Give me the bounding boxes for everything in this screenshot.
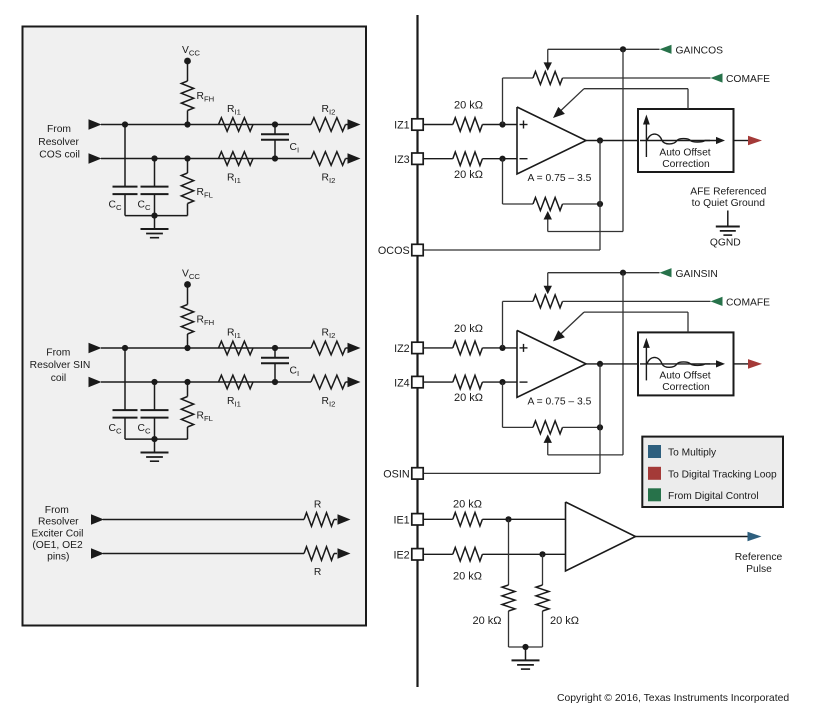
svg-text:20 kΩ: 20 kΩ xyxy=(454,392,483,404)
wire IZ pin to 20k (SIN +) xyxy=(423,347,453,349)
output arrow bottom (SIN) xyxy=(348,377,361,388)
wire 20k to op-amp - (SIN) xyxy=(482,381,517,383)
wire IZ pin to 20k (COS -) xyxy=(423,158,453,160)
node offset pot right (SIN) xyxy=(597,424,603,430)
svg-text:20 kΩ: 20 kΩ xyxy=(453,570,482,582)
wire IZ pin to 20k (SIN -) xyxy=(423,381,453,383)
resistor 20k (IE2) xyxy=(453,548,483,583)
svg-text:Copyright © 2016, Texas Instru: Copyright © 2016, Texas Instruments Inco… xyxy=(557,693,789,704)
wire + input to gain pot (COS) xyxy=(502,78,504,125)
wire bottom rail (COS) xyxy=(101,158,311,160)
svg-text:pins): pins) xyxy=(47,552,69,563)
svg-text:To Multiply: To Multiply xyxy=(668,448,717,459)
capacitor Cc1 (SIN) xyxy=(109,348,138,439)
pin OSIN xyxy=(383,468,423,481)
potentiometer offset (COS bottom) xyxy=(503,198,601,211)
resistor RI1 top (SIN) xyxy=(219,328,254,355)
legend swatch To Digital Tracking Loop xyxy=(648,467,661,480)
wire 20k to comparator + xyxy=(482,518,565,520)
resistor 20k (COS -) xyxy=(453,152,483,181)
ground (comparator divider) xyxy=(512,647,540,669)
svg-text:R: R xyxy=(314,500,321,511)
bus line (device boundary) xyxy=(416,15,418,687)
capacitor Cc2 (SIN) xyxy=(138,382,169,439)
wire + input to gain pot (SIN) xyxy=(502,301,504,348)
Vcc supply terminal (SIN channel) xyxy=(182,269,200,288)
pin IZ3 xyxy=(394,153,423,166)
svg-text:From: From xyxy=(47,124,71,135)
arrow to digital tracking loop (SIN) xyxy=(748,359,762,369)
op-amp U-COS xyxy=(517,107,592,184)
resistor RFH (SIN) xyxy=(181,305,214,335)
ground (COS) xyxy=(141,216,169,238)
wire top rail (COS) xyxy=(101,124,311,126)
node + input (SIN) xyxy=(499,345,505,351)
node bottom-Cc2 junction (SIN) xyxy=(151,379,157,385)
wire block output (SIN) xyxy=(734,363,749,365)
svg-text:20 kΩ: 20 kΩ xyxy=(454,169,483,181)
auto offset correction block (COS) xyxy=(638,109,734,172)
capacitor Ci (SIN) xyxy=(261,348,299,382)
resistor 20k pulldown left xyxy=(472,585,515,627)
output arrow top (COS) xyxy=(348,119,361,130)
svg-text:Correction: Correction xyxy=(662,159,710,170)
svg-text:Exciter Coil: Exciter Coil xyxy=(31,528,83,539)
wire RFH to top rail (SIN) xyxy=(187,334,189,348)
node top-RFH junction (COS) xyxy=(184,121,190,127)
node - input (COS) xyxy=(499,156,505,162)
legend box xyxy=(642,437,783,507)
svg-text:to Quiet Ground: to Quiet Ground xyxy=(692,198,766,209)
resistor 20k (COS +) xyxy=(453,100,483,132)
wire IZ pin to 20k (COS +) xyxy=(423,124,453,126)
svg-text:IZ1: IZ1 xyxy=(394,120,410,132)
wire wiper bottom (SIN) xyxy=(548,454,623,456)
wire output to SIN output pin xyxy=(599,427,601,473)
potentiometer gain (SIN top) xyxy=(503,295,563,308)
resistor RI2 top (SIN) xyxy=(311,328,346,355)
svg-text:COMAFE: COMAFE xyxy=(726,74,770,85)
input arrow bottom (COS) xyxy=(89,153,102,164)
node bottom-Ci junction (COS) xyxy=(272,155,278,161)
node bottom-RFL junction (SIN) xyxy=(184,379,190,385)
wire block output (COS) xyxy=(734,140,749,142)
wire Vcc to RFH (SIN) xyxy=(187,285,189,305)
wire COMAFE (SIN) xyxy=(563,300,711,302)
svg-text:20 kΩ: 20 kΩ xyxy=(472,615,501,627)
svg-text:COS coil: COS coil xyxy=(39,150,80,161)
resistor RI2 bottom (SIN) xyxy=(311,375,346,408)
node top-Cc1 junction (SIN) xyxy=(122,345,128,351)
legend swatch From Digital Control xyxy=(648,488,661,501)
resistor RI1 bottom (SIN) xyxy=(219,375,254,408)
input arrow bottom (SIN) xyxy=(89,377,102,388)
svg-text:Resolver: Resolver xyxy=(38,137,79,148)
pin OCOS xyxy=(378,244,423,257)
node ground junction (SIN) xyxy=(151,436,157,442)
COMAFE terminal (COS) xyxy=(711,73,771,85)
arrow offset feedback into op-amp (SIN) xyxy=(553,330,565,341)
svg-text:IZ2: IZ2 xyxy=(394,343,410,355)
output arrow exciter OE1 xyxy=(334,514,351,525)
pin IE1 xyxy=(393,514,423,527)
legend swatch To Multiply xyxy=(648,445,661,458)
wire offset feedback (SIN) xyxy=(556,312,689,339)
wire offset feedback (COS) xyxy=(556,89,689,116)
svg-text:From Digital Control: From Digital Control xyxy=(668,491,759,502)
svg-text:20 kΩ: 20 kΩ xyxy=(454,323,483,335)
svg-text:OCOS: OCOS xyxy=(378,245,410,257)
wire output to pot (SIN) xyxy=(599,364,601,428)
svg-text:A = 0.75 – 3.5: A = 0.75 – 3.5 xyxy=(528,396,592,407)
wire op-amp output (SIN) xyxy=(586,363,638,365)
wire GAINCOS xyxy=(548,48,660,50)
wire output to COS output pin xyxy=(599,204,601,250)
svg-text:(OE1, OE2: (OE1, OE2 xyxy=(32,540,83,551)
wire top rail (SIN) xyxy=(101,347,311,349)
pin IZ1 xyxy=(394,119,423,132)
resistor 20k pulldown right xyxy=(536,585,579,627)
wire op-amp output (COS) xyxy=(586,140,638,142)
wire pulldown right to ground rail xyxy=(542,611,544,647)
svg-text:GAINSIN: GAINSIN xyxy=(676,269,718,280)
arrow offset feedback into op-amp (COS) xyxy=(553,107,565,118)
input arrow top (COS) xyxy=(89,119,102,130)
arrow to digital tracking loop (COS) xyxy=(748,136,762,146)
panel box: resolver input networks xyxy=(23,27,367,626)
svg-text:IZ4: IZ4 xyxy=(394,377,410,389)
svg-text:20 kΩ: 20 kΩ xyxy=(453,498,482,510)
capacitor Cc2 (COS) xyxy=(138,159,169,216)
wire ground bus (SIN) xyxy=(125,438,188,440)
wiper arrow top pot (COS) xyxy=(544,49,552,71)
wire wiper bottom (COS) xyxy=(548,231,623,233)
capacitor Ci (COS) xyxy=(261,125,299,159)
pin IZ2 xyxy=(394,342,423,355)
resistor RI1 bottom (COS) xyxy=(219,152,254,185)
node bottom-Cc2 junction (COS) xyxy=(151,155,157,161)
wire IE2 pin to 20k xyxy=(423,553,453,555)
node bottom-RFL junction (COS) xyxy=(184,155,190,161)
wiper arrow bottom pot (COS) xyxy=(544,211,552,232)
comparator U3 xyxy=(566,502,636,571)
resistor R (OE2) xyxy=(304,547,334,578)
svg-text:Auto Offset: Auto Offset xyxy=(659,371,710,382)
COMAFE terminal (SIN) xyxy=(711,297,771,309)
output arrow top (SIN) xyxy=(348,343,361,354)
ground (SIN) xyxy=(141,439,169,461)
arrow reference pulse xyxy=(748,532,762,542)
node top-Ci junction (COS) xyxy=(272,121,278,127)
node IE1 junction xyxy=(505,516,511,522)
resistor RFH (COS) xyxy=(181,81,214,111)
node + input (COS) xyxy=(499,121,505,127)
svg-text:coil: coil xyxy=(51,373,66,384)
svg-text:20 kΩ: 20 kΩ xyxy=(454,100,483,112)
node top-RFH junction (SIN) xyxy=(184,345,190,351)
input arrow top (SIN) xyxy=(89,343,102,354)
svg-text:IE1: IE1 xyxy=(393,515,409,527)
pin IE2 xyxy=(393,549,423,562)
svg-text:QGND: QGND xyxy=(710,238,741,249)
wire GAINSIN xyxy=(548,272,660,274)
node offset pot right (COS) xyxy=(597,201,603,207)
svg-text:Resolver SIN: Resolver SIN xyxy=(30,360,91,371)
GAINCOS terminal xyxy=(660,45,724,57)
label From Resolver COS coil xyxy=(38,124,80,161)
svg-text:R: R xyxy=(314,567,321,578)
node ground junction (comparator) xyxy=(522,644,528,650)
wire exciter OE1 xyxy=(103,519,304,521)
svg-text:IZ3: IZ3 xyxy=(394,154,410,166)
ground QGND xyxy=(710,211,741,249)
node output (COS) xyxy=(597,137,603,143)
svg-text:OSIN: OSIN xyxy=(383,469,409,481)
wire RFH to top rail (COS) xyxy=(187,111,189,125)
op-amp U-SIN xyxy=(517,330,592,407)
node GAINCOS junction xyxy=(620,46,626,52)
wire IE1 pin to 20k xyxy=(423,518,453,520)
svg-text:AFE Referenced: AFE Referenced xyxy=(690,186,766,197)
potentiometer offset (SIN bottom) xyxy=(503,421,601,434)
wire exciter OE2 xyxy=(103,553,304,555)
wire IE1 node down xyxy=(508,519,510,585)
svg-text:20 kΩ: 20 kΩ xyxy=(550,615,579,627)
svg-text:IE2: IE2 xyxy=(393,550,409,562)
svg-text:COMAFE: COMAFE xyxy=(726,298,770,309)
output arrow exciter OE2 xyxy=(334,548,351,559)
svg-text:Correction: Correction xyxy=(662,382,710,393)
resistor RFL (SIN) xyxy=(181,382,213,439)
svg-text:A = 0.75 – 3.5: A = 0.75 – 3.5 xyxy=(528,173,592,184)
svg-text:Auto Offset: Auto Offset xyxy=(659,147,710,158)
wire COMAFE (COS) xyxy=(563,77,711,79)
node top-Ci junction (SIN) xyxy=(272,345,278,351)
svg-text:GAINCOS: GAINCOS xyxy=(676,46,724,57)
wire bottom rail (SIN) xyxy=(101,381,311,383)
output arrow bottom (COS) xyxy=(348,153,361,164)
node bottom-Ci junction (SIN) xyxy=(272,379,278,385)
resistor 20k (SIN -) xyxy=(453,375,483,404)
wire gain feedback vertical (SIN) xyxy=(622,273,624,455)
svg-text:From: From xyxy=(45,505,69,516)
svg-text:Reference: Reference xyxy=(735,552,783,563)
svg-text:From: From xyxy=(46,348,70,359)
wire gain feedback vertical (COS) xyxy=(622,49,624,231)
wire pulldown left to ground rail xyxy=(508,611,510,647)
wire ground rail xyxy=(509,646,543,648)
resistor RFL (COS) xyxy=(181,159,213,216)
wire - input to offset pot (SIN) xyxy=(502,382,504,427)
resistor RI2 top (COS) xyxy=(311,104,346,131)
wire IE2 node down xyxy=(542,554,544,585)
label From Resolver SIN coil xyxy=(30,348,91,384)
wire 20k to op-amp - (COS) xyxy=(482,158,517,160)
capacitor Cc1 (COS) xyxy=(109,125,138,216)
node GAINSIN junction xyxy=(620,270,626,276)
Vcc supply terminal (COS channel) xyxy=(182,45,200,64)
label From Resolver Exciter Coil xyxy=(31,505,83,562)
svg-text:To Digital Tracking Loop: To Digital Tracking Loop xyxy=(668,469,777,480)
GAINSIN terminal xyxy=(660,268,718,280)
wiper arrow top pot (SIN) xyxy=(544,273,552,295)
wire ground bus (COS) xyxy=(125,215,188,217)
wire Vcc to RFH (COS) xyxy=(187,61,189,81)
pin IZ4 xyxy=(394,376,423,389)
label Reference Pulse xyxy=(735,552,783,575)
resistor RI1 top (COS) xyxy=(219,104,254,131)
svg-text:Resolver: Resolver xyxy=(38,517,79,528)
resistor RI2 bottom (COS) xyxy=(311,152,346,185)
node top-Cc1 junction (COS) xyxy=(122,121,128,127)
potentiometer gain (COS top) xyxy=(503,72,563,85)
input arrow exciter OE2 xyxy=(91,548,104,559)
svg-text:Pulse: Pulse xyxy=(746,564,772,575)
wire 20k to op-amp + (SIN) xyxy=(482,347,517,349)
wire comparator output xyxy=(636,536,749,538)
wire - input to offset pot (COS) xyxy=(502,159,504,204)
resistor 20k (SIN +) xyxy=(453,323,483,355)
wire 20k to op-amp + (COS) xyxy=(482,124,517,126)
node IE2 junction xyxy=(539,551,545,557)
resistor 20k (IE1) xyxy=(453,498,483,526)
node ground junction (COS) xyxy=(151,213,157,219)
auto offset correction block (SIN) xyxy=(638,332,734,395)
wire 20k to comparator - xyxy=(482,553,565,555)
node - input (SIN) xyxy=(499,379,505,385)
wiper arrow bottom pot (SIN) xyxy=(544,434,552,455)
wire output to pot (COS) xyxy=(599,141,601,205)
node output (SIN) xyxy=(597,361,603,367)
input arrow exciter OE1 xyxy=(91,514,104,525)
resistor R (OE1) xyxy=(304,500,334,527)
label AFE referenced to quiet ground xyxy=(690,186,766,209)
